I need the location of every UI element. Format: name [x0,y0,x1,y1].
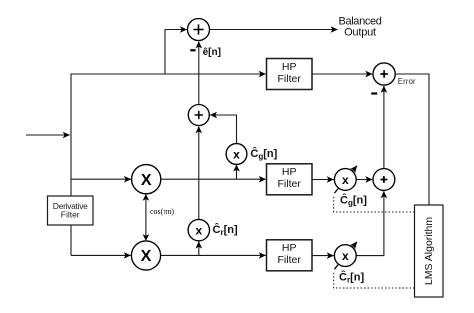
summer S1 (top adder) [188,19,210,41]
multiplier X1 [132,165,161,194]
svg-text:x: x [233,147,240,161]
minus sign at S4 [371,92,377,94]
svg-text:cos(πn): cos(πn) [150,207,174,216]
wire input arrow [26,134,70,136]
multiplier M4 (adaptive gain, lower) [334,245,356,267]
wire M3 output into summer S3 [356,179,372,181]
wire dotted LMS to Cg coefficient [334,197,415,212]
svg-text:HP: HP [282,61,297,73]
svg-text:Filter: Filter [61,210,80,220]
svg-text:X: X [141,172,152,189]
wire junction feed up into M1 [236,165,238,180]
multiplier M2 (C_r gain) [188,219,209,240]
adaptive arrow on M3 [334,166,357,193]
svg-text:Ĉg[n]: Ĉg[n] [250,147,277,161]
wire dotted LMS to Cr coefficient [334,273,415,289]
wire HP2 output into gain multiplier M3 [312,179,334,181]
HP filter 2 box [267,164,313,195]
derivative filter box [48,196,94,225]
svg-text:Output: Output [344,27,376,39]
wire X2 output to HP3 [160,254,265,256]
wire M4 output up into S3 bottom [356,191,384,255]
svg-text:x: x [195,224,202,238]
wire branch up to summer S1 [165,30,187,75]
wire S3 output up to S4 bottom [383,86,385,169]
svg-text:x: x [342,173,349,187]
wire Cr multiplier M2 output up to S2 bottom input [198,126,200,219]
wire error summer output down to LMS box [395,74,429,205]
wire S2 output up to S1 [198,42,200,105]
svg-text:Filter: Filter [278,73,302,85]
svg-text:Error: Error [398,77,416,86]
multiplier X2 [131,241,160,270]
wire top line to HP1 [71,73,266,75]
svg-text:X: X [141,248,152,265]
svg-text:LMS Algorithm: LMS Algorithm [423,217,435,286]
svg-text:Filter: Filter [278,254,302,266]
svg-text:x: x [342,249,349,263]
summer S2 (middle adder) [188,105,209,126]
multiplier M1 (C_g gain) [226,144,247,165]
wire HP3 output into gain multiplier M4 [312,255,334,257]
wire cos(pi n) line with both-end arrows [145,195,147,241]
adaptive arrow on M4 [334,242,357,269]
summer S3 [373,169,395,191]
multiplier M3 (adaptive gain, middle) [334,169,356,191]
wire derivative filter output to X2 [71,254,131,256]
wire middle line into X1 [71,178,131,180]
svg-text:HP: HP [282,166,297,178]
svg-text:Ĉr[n]: Ĉr[n] [339,271,364,285]
HP filter 3 box [267,240,313,271]
svg-text:Filter: Filter [278,178,302,190]
HP filter 1 box [267,59,313,90]
svg-text:Ĉr[n]: Ĉr[n] [213,223,238,237]
wire X1 output to HP2 [161,178,266,180]
svg-text:Ĉg[n]: Ĉg[n] [340,194,367,208]
error summer S4 [373,63,395,85]
wire left vertical [70,74,72,255]
LMS algorithm box [415,205,444,297]
svg-text:HP: HP [282,242,297,254]
wire HP1 output to error summer S4 [312,73,372,75]
wire lower junction feed up into M2 [198,242,200,256]
wire S1 output to Balanced Output [210,29,338,31]
wire Cg multiplier M1 output to S2 right input [210,115,236,144]
minus sign at S1 [190,49,195,51]
svg-text:ê[n]: ê[n] [203,47,221,58]
